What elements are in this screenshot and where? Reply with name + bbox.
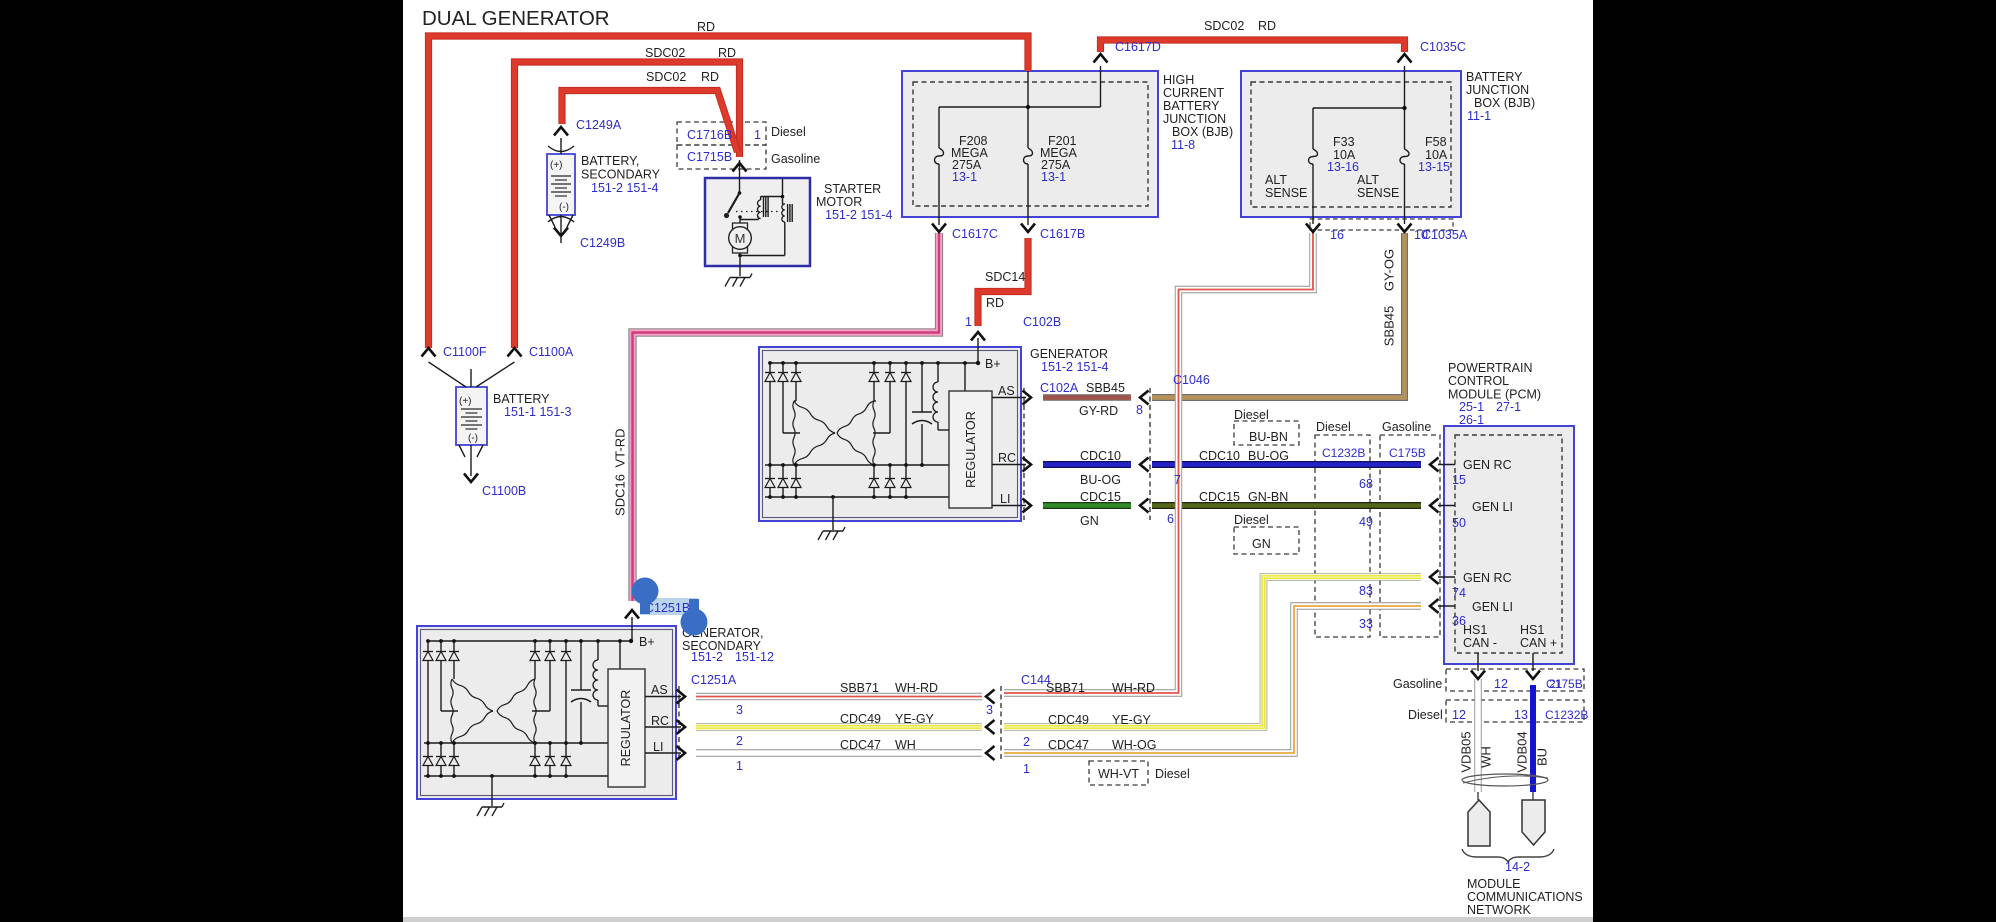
battery junction box (BJB) 11-1 xyxy=(1241,71,1461,217)
svg-text:CDC10: CDC10 xyxy=(1199,449,1240,463)
connector C1035A dashed box xyxy=(1310,219,1453,230)
svg-text:BU: BU xyxy=(1534,748,1549,766)
svg-text:RC: RC xyxy=(651,714,669,728)
svg-text:MODULE: MODULE xyxy=(1467,877,1520,891)
fuse F208 MEGA 275A xyxy=(938,142,940,148)
wire SDC02 RD: battery C1100F to HCBJB F201 feed xyxy=(429,36,1029,348)
svg-text:RD: RD xyxy=(701,70,719,84)
svg-text:(+): (+) xyxy=(550,160,563,171)
wire SDC02 RD: battery secondary C1249A branch to starter xyxy=(562,91,738,153)
svg-text:GEN RC: GEN RC xyxy=(1463,571,1512,585)
svg-text:GEN LI: GEN LI xyxy=(1472,500,1513,514)
connector C1232B dashed box (Diesel) xyxy=(1315,435,1370,637)
annotation marker pin 1 xyxy=(632,578,659,615)
wire: C1035C stub into BJB xyxy=(1404,66,1406,108)
svg-text:JUNCTION: JUNCTION xyxy=(1163,112,1226,126)
svg-text:YE-GY: YE-GY xyxy=(895,712,935,726)
wire SBB45 GY-RD: generator AS to C1046 xyxy=(1043,394,1131,401)
svg-text:C1232B: C1232B xyxy=(1545,708,1588,722)
svg-text:ALT: ALT xyxy=(1265,173,1287,187)
starter motor internals: switch, solenoid coils, motor M xyxy=(724,179,792,276)
generator secondary internals: rectifier diodes, stator windings, capacitor, field coil xyxy=(423,639,633,778)
svg-text:MOTOR: MOTOR xyxy=(816,195,862,209)
svg-text:F58: F58 xyxy=(1425,135,1447,149)
connector arrow C1035C xyxy=(1398,54,1412,63)
svg-text:C1232B: C1232B xyxy=(1322,446,1365,460)
regulator (generator main) xyxy=(949,391,992,508)
svg-text:1: 1 xyxy=(736,759,743,773)
svg-text:SENSE: SENSE xyxy=(1265,186,1307,200)
svg-text:Diesel: Diesel xyxy=(1234,513,1269,527)
white diagram sheet xyxy=(403,0,1593,917)
wire CDC15 GN-BN: C1046 to PCM GEN LI 50 xyxy=(1152,502,1421,509)
battery main plates xyxy=(459,396,482,444)
svg-text:VDB05: VDB05 xyxy=(1458,731,1473,772)
svg-text:Diesel: Diesel xyxy=(771,125,806,139)
svg-text:YE-GY: YE-GY xyxy=(1112,713,1152,727)
svg-text:NETWORK: NETWORK xyxy=(1467,903,1532,917)
wire: battery main positive V-leads xyxy=(429,362,467,387)
connector arrow starter feed xyxy=(733,163,747,172)
connector arrow C1100A xyxy=(508,348,522,357)
brace under network terminals xyxy=(1462,849,1554,862)
battery secondary box xyxy=(547,154,575,215)
svg-text:11-8: 11-8 xyxy=(1171,138,1195,152)
connector arrow C102A RC xyxy=(1023,458,1032,472)
connector arrow C102A LI xyxy=(1023,499,1032,513)
connector arrow C1617B xyxy=(1021,224,1035,233)
svg-text:ALT: ALT xyxy=(1357,173,1379,187)
svg-text:SDC16: SDC16 xyxy=(612,474,627,516)
svg-text:REGULATOR: REGULATOR xyxy=(619,690,633,767)
wire CDC49 YE-GY: C144 up to PCM GEN RC 74 xyxy=(1004,577,1421,727)
svg-text:C175B: C175B xyxy=(1389,446,1426,460)
svg-text:RD: RD xyxy=(1258,19,1276,33)
svg-text:27-1: 27-1 xyxy=(1496,400,1521,414)
network terminal (BU side) xyxy=(1532,792,1534,800)
svg-text:RD: RD xyxy=(986,296,1004,310)
fuse F201 MEGA 275A xyxy=(1027,142,1029,148)
svg-text:WH-OG: WH-OG xyxy=(1112,738,1156,752)
svg-text:68: 68 xyxy=(1359,477,1373,491)
connector arrow HS1 CAN+ out xyxy=(1526,671,1540,680)
svg-text:1: 1 xyxy=(1023,762,1030,776)
connector arrow C102A AS xyxy=(1023,391,1032,405)
connector arrow C1100F xyxy=(422,348,436,357)
svg-text:C1035C: C1035C xyxy=(1420,40,1466,54)
splice BU-BN dashed box (Diesel) xyxy=(1234,421,1299,445)
svg-text:50: 50 xyxy=(1452,516,1466,530)
svg-text:GEN RC: GEN RC xyxy=(1463,458,1512,472)
svg-text:151-2: 151-2 xyxy=(691,650,723,664)
svg-text:REGULATOR: REGULATOR xyxy=(964,411,978,488)
connector arrow C1046 pin6 xyxy=(1140,499,1149,513)
svg-text:151-1 151-3: 151-1 151-3 xyxy=(504,405,571,419)
svg-text:C1035A: C1035A xyxy=(1422,228,1468,242)
svg-text:13-1: 13-1 xyxy=(1041,170,1066,184)
svg-text:8: 8 xyxy=(1136,403,1143,417)
svg-text:13-15: 13-15 xyxy=(1418,160,1450,174)
svg-text:3: 3 xyxy=(986,703,993,717)
connector arrow C1251B xyxy=(625,610,639,619)
connector C1046 dashed line xyxy=(1149,388,1151,520)
svg-text:BU-BN: BU-BN xyxy=(1249,430,1288,444)
svg-text:CDC15: CDC15 xyxy=(1080,490,1121,504)
svg-text:VT-RD: VT-RD xyxy=(612,429,627,468)
ground (generator main) xyxy=(832,497,834,530)
svg-text:CAN -: CAN - xyxy=(1463,636,1497,650)
svg-text:25-1: 25-1 xyxy=(1459,400,1484,414)
svg-text:GN: GN xyxy=(1080,514,1099,528)
svg-text:C1251B: C1251B xyxy=(645,601,690,615)
svg-text:HIGH: HIGH xyxy=(1163,73,1194,87)
svg-text:2: 2 xyxy=(1023,735,1030,749)
svg-text:RD: RD xyxy=(697,20,715,34)
wire: F208 leads xyxy=(938,107,940,142)
svg-text:16: 16 xyxy=(1330,228,1344,242)
svg-text:33: 33 xyxy=(1359,617,1373,631)
wire SBB45 GY-OG: BJB C1035A pin 10 to C1046 xyxy=(1152,233,1405,398)
regulator (generator secondary) xyxy=(608,669,645,787)
svg-text:11-1: 11-1 xyxy=(1467,109,1491,123)
svg-text:(-): (-) xyxy=(559,202,569,213)
svg-text:13-16: 13-16 xyxy=(1327,160,1359,174)
svg-text:SDC14: SDC14 xyxy=(985,270,1025,284)
wire: battery main negative lead xyxy=(470,445,472,476)
connector arrow C102B xyxy=(971,332,985,341)
connector arrow C1617C xyxy=(932,224,946,233)
bottom gray strip xyxy=(403,917,1593,922)
svg-text:3: 3 xyxy=(736,703,743,717)
connector arrow C144 pin2 xyxy=(986,720,995,734)
svg-text:15: 15 xyxy=(1452,473,1466,487)
svg-text:GEN LI: GEN LI xyxy=(1472,600,1513,614)
svg-text:CDC47: CDC47 xyxy=(1048,738,1089,752)
svg-text:1: 1 xyxy=(754,128,761,142)
svg-text:CDC49: CDC49 xyxy=(1048,713,1089,727)
connector C1715B dashed box (Gasoline) xyxy=(677,145,766,169)
svg-text:CURRENT: CURRENT xyxy=(1163,86,1224,100)
svg-text:2: 2 xyxy=(736,734,743,748)
connector arrow C1251A pin3 xyxy=(677,690,686,704)
svg-text:83: 83 xyxy=(1359,584,1373,598)
svg-text:CDC49: CDC49 xyxy=(840,712,881,726)
battery secondary plates xyxy=(550,160,571,213)
svg-text:7: 7 xyxy=(1174,473,1181,487)
svg-text:AS: AS xyxy=(651,683,668,697)
svg-text:B+: B+ xyxy=(639,635,655,649)
connector arrow C1046 pin8 xyxy=(1140,391,1149,405)
connector arrow C144 pin1 xyxy=(986,746,995,760)
ground (starter motor) xyxy=(730,277,750,279)
svg-text:SDC02: SDC02 xyxy=(1204,19,1244,33)
connector arrow C1251A pin1 xyxy=(677,746,686,760)
network terminal (WH side) xyxy=(1477,792,1479,800)
svg-text:SENSE: SENSE xyxy=(1357,186,1399,200)
svg-text:151-2 151-4: 151-2 151-4 xyxy=(1041,360,1108,374)
svg-text:C1249B: C1249B xyxy=(580,236,625,250)
svg-text:POWERTRAIN: POWERTRAIN xyxy=(1448,361,1533,375)
svg-text:C1100F: C1100F xyxy=(443,345,487,359)
svg-text:SDC02: SDC02 xyxy=(646,70,686,84)
svg-text:GY-OG: GY-OG xyxy=(1381,249,1396,291)
svg-text:RD: RD xyxy=(718,46,736,60)
svg-text:WH: WH xyxy=(895,738,916,752)
svg-text:F33: F33 xyxy=(1333,135,1355,149)
twisted pair symbol xyxy=(1462,774,1548,786)
splice WH-VT dashed box (Diesel) xyxy=(1089,761,1148,785)
connector C175B dashed box below PCM (Gasoline row) xyxy=(1446,669,1584,691)
wire CDC47 WH: generator secondary LI to C144 xyxy=(696,749,982,756)
generator main internals: rectifier diodes, stator windings, capacitor, field coil xyxy=(765,361,980,499)
junction node BJB xyxy=(1402,106,1406,110)
connector arrow PCM GEN RC 15 xyxy=(1430,458,1439,472)
svg-text:M: M xyxy=(735,231,746,246)
connector arrow C1251A pin2 xyxy=(677,720,686,734)
svg-text:C1046: C1046 xyxy=(1173,373,1210,387)
high current battery junction box (BJB) 11-8 xyxy=(902,71,1158,217)
wire: starter feed stem below C1715B xyxy=(739,160,741,180)
svg-text:Diesel: Diesel xyxy=(1408,708,1443,722)
svg-text:Gasoline: Gasoline xyxy=(771,152,820,166)
svg-text:BU-OG: BU-OG xyxy=(1080,473,1121,487)
wire SDC14 RD: C1617B to generator C102B pin 1 xyxy=(978,238,1028,326)
svg-text:Gasoline: Gasoline xyxy=(1393,677,1442,691)
svg-text:14-2: 14-2 xyxy=(1505,860,1530,874)
wire: PCM HS1 CAN+ stub xyxy=(1532,653,1534,671)
connector C175B dashed box (Gasoline) xyxy=(1380,435,1440,637)
svg-text:C1617C: C1617C xyxy=(952,227,998,241)
connector arrow PCM GEN LI 50 xyxy=(1430,499,1439,513)
wire: battery secondary negative lead xyxy=(560,215,562,243)
svg-text:SBB45: SBB45 xyxy=(1086,381,1125,395)
svg-text:C1100A: C1100A xyxy=(529,345,574,359)
svg-text:AS: AS xyxy=(998,384,1015,398)
svg-text:C1716B: C1716B xyxy=(687,128,732,142)
svg-text:151-2 151-4: 151-2 151-4 xyxy=(591,181,658,195)
connector C1716B dashed box (Diesel) xyxy=(677,122,766,145)
svg-text:C1100B: C1100B xyxy=(482,484,526,498)
svg-text:Diesel: Diesel xyxy=(1155,767,1190,781)
svg-text:WH-VT: WH-VT xyxy=(1098,767,1139,781)
connector bracket below battery secondary xyxy=(548,217,574,223)
svg-text:GN-BN: GN-BN xyxy=(1248,490,1288,504)
wire: PCM HS1 CAN- stub xyxy=(1477,653,1479,671)
svg-text:BOX (BJB): BOX (BJB) xyxy=(1172,125,1233,139)
connector C1232B dashed box below PCM (Diesel row) xyxy=(1446,700,1584,722)
svg-text:BATTERY: BATTERY xyxy=(493,392,550,406)
splice GN dashed box (Diesel) xyxy=(1234,527,1299,554)
ground (generator secondary) xyxy=(491,776,493,806)
junction node HCBJB xyxy=(1026,105,1030,109)
svg-text:74: 74 xyxy=(1452,586,1466,600)
svg-text:C1249A: C1249A xyxy=(576,118,622,132)
wire VDB04 BU: PCM HS1 CAN+ to module communications network xyxy=(1530,685,1536,792)
wire CDC10 BU-OG: C1046 to PCM GEN RC 15 xyxy=(1152,461,1421,468)
wire: generator secondary B+ stem from C1251B xyxy=(631,617,633,641)
svg-text:C1715B: C1715B xyxy=(687,150,732,164)
svg-text:26-1: 26-1 xyxy=(1459,413,1484,427)
svg-text:LI: LI xyxy=(653,740,663,754)
wire CDC49 YE-GY: generator secondary RC to C144 xyxy=(696,723,982,731)
fuse F33 10A xyxy=(1312,143,1314,149)
svg-text:49: 49 xyxy=(1359,515,1373,529)
svg-text:HS1: HS1 xyxy=(1520,623,1544,637)
wire: F201 leads xyxy=(1027,71,1029,142)
svg-text:BATTERY,: BATTERY, xyxy=(581,154,639,168)
wire CDC15 GN: generator LI segment xyxy=(1043,502,1131,509)
connector arrow C1249A xyxy=(554,127,568,136)
wire SBB71 WH-RD: BJB fuse F33 pin 16 down-left-down to C144 xyxy=(1004,233,1313,693)
wire: BJB internal bus xyxy=(1313,107,1405,109)
svg-text:GENERATOR: GENERATOR xyxy=(1030,347,1108,361)
svg-text:C102B: C102B xyxy=(1023,315,1061,329)
svg-text:CONTROL: CONTROL xyxy=(1448,374,1509,388)
svg-text:151-2 151-4: 151-2 151-4 xyxy=(825,208,892,222)
svg-text:12: 12 xyxy=(1494,677,1508,691)
svg-text:Gasoline: Gasoline xyxy=(1382,420,1431,434)
svg-text:CDC10: CDC10 xyxy=(1080,449,1121,463)
wire: F33 leads xyxy=(1312,108,1314,143)
connector arrow C1249B xyxy=(554,228,568,237)
svg-text:COMMUNICATIONS: COMMUNICATIONS xyxy=(1467,890,1583,904)
wire SBB71 WH-RD: generator secondary AS to C144 xyxy=(696,693,982,700)
connector C102A dashed line xyxy=(1023,388,1025,520)
svg-text:(-): (-) xyxy=(468,433,478,444)
connector arrow PCM GEN RC 74 xyxy=(1430,570,1439,584)
wire CDC10 BU-OG: generator RC segment xyxy=(1043,461,1131,468)
generator box (main) xyxy=(759,347,1021,521)
wire CDC47 WH-OG: C144 up to PCM GEN LI 36 xyxy=(1004,606,1421,753)
svg-text:JUNCTION: JUNCTION xyxy=(1466,83,1529,97)
connector arrow C1046 pin7 xyxy=(1140,458,1149,472)
svg-text:GY-RD: GY-RD xyxy=(1079,404,1118,418)
svg-text:SECONDARY: SECONDARY xyxy=(581,168,661,182)
svg-text:CDC47: CDC47 xyxy=(840,738,881,752)
wire: F58 leads xyxy=(1404,108,1406,143)
svg-text:WH-RD: WH-RD xyxy=(1112,681,1155,695)
svg-text:Diesel: Diesel xyxy=(1234,408,1269,422)
generator secondary box xyxy=(417,626,676,799)
svg-text:SBB71: SBB71 xyxy=(840,681,879,695)
svg-text:SBB71: SBB71 xyxy=(1046,681,1085,695)
svg-text:1: 1 xyxy=(965,315,972,329)
powertrain control module (PCM) box xyxy=(1444,426,1574,664)
wire: generator B+ stem from C102B xyxy=(977,338,979,363)
wire SDC02 RD: battery C1100A to starter feed xyxy=(515,62,740,348)
wire VDB05 WH: PCM HS1 CAN- to module communications network xyxy=(1474,679,1481,792)
fuse F58 10A xyxy=(1404,143,1406,149)
annotation marker pin 2 xyxy=(681,599,708,636)
svg-text:(+): (+) xyxy=(459,396,472,407)
svg-text:STARTER: STARTER xyxy=(824,182,881,196)
svg-text:C144: C144 xyxy=(1021,673,1051,687)
svg-text:WH: WH xyxy=(1478,746,1493,768)
svg-text:SBB45: SBB45 xyxy=(1381,306,1396,346)
svg-text:6: 6 xyxy=(1167,512,1174,526)
svg-text:GN: GN xyxy=(1252,537,1271,551)
connector C144 dashed line xyxy=(1000,686,1002,762)
svg-text:C1617D: C1617D xyxy=(1115,40,1161,54)
svg-text:C175B: C175B xyxy=(1546,677,1583,691)
svg-text:BOX (BJB): BOX (BJB) xyxy=(1474,96,1535,110)
connector arrow C1035A pin10 xyxy=(1398,224,1412,233)
svg-text:13-1: 13-1 xyxy=(952,170,977,184)
svg-text:BATTERY: BATTERY xyxy=(1163,99,1220,113)
svg-text:SDC02: SDC02 xyxy=(645,46,685,60)
svg-text:CDC15: CDC15 xyxy=(1199,490,1240,504)
svg-text:CAN +: CAN + xyxy=(1520,636,1557,650)
svg-text:B+: B+ xyxy=(985,357,1001,371)
wire: PCM pin stubs GEN RC 15 / GEN LI 50 / GEN RC 74 / GEN LI 36 xyxy=(1438,464,1455,466)
wire SDC16 VT-RD: C1617C to generator secondary C1251B xyxy=(633,233,940,601)
wire: battery secondary positive lead xyxy=(560,138,562,154)
wire: generator secondary AS/RC/LI pin stubs xyxy=(645,696,681,698)
svg-text:151-12: 151-12 xyxy=(735,650,774,664)
connector C1251A dashed line xyxy=(678,686,680,762)
wire SDC02 RD: C1617D to C1035C jumper xyxy=(1101,40,1405,52)
connector arrow PCM GEN LI 36 xyxy=(1430,599,1439,613)
svg-text:WH-RD: WH-RD xyxy=(895,681,938,695)
svg-text:HS1: HS1 xyxy=(1463,623,1487,637)
connector arrow C1617D xyxy=(1094,54,1108,63)
wire: HCBJB internal bus xyxy=(939,106,1101,108)
connector arrow C144 pin3 xyxy=(986,690,995,704)
wire: C1617D stub into HCBJB xyxy=(1100,66,1102,107)
annotation highlight on C1251B xyxy=(640,598,698,615)
svg-text:BU-OG: BU-OG xyxy=(1248,449,1289,463)
svg-text:C1617B: C1617B xyxy=(1040,227,1085,241)
svg-text:C102A: C102A xyxy=(1040,381,1079,395)
svg-text:12: 12 xyxy=(1452,708,1466,722)
connector arrow C1100B xyxy=(464,474,478,483)
connector arrow pin16 xyxy=(1306,224,1320,233)
svg-text:C1251A: C1251A xyxy=(691,673,737,687)
svg-text:RC: RC xyxy=(998,451,1016,465)
svg-text:Diesel: Diesel xyxy=(1316,420,1351,434)
svg-text:LI: LI xyxy=(1000,492,1010,506)
svg-text:BATTERY: BATTERY xyxy=(1466,70,1523,84)
svg-text:VDB04: VDB04 xyxy=(1514,731,1529,772)
starter motor box xyxy=(705,178,810,266)
wire: generator AS/RC/LI pin stubs xyxy=(992,397,1026,399)
battery (main) box xyxy=(456,387,487,445)
svg-text:DUAL GENERATOR: DUAL GENERATOR xyxy=(422,7,610,30)
connector arrow HS1 CAN- out xyxy=(1471,671,1485,680)
connector bracket above battery secondary xyxy=(548,146,574,152)
svg-text:13: 13 xyxy=(1514,708,1528,722)
